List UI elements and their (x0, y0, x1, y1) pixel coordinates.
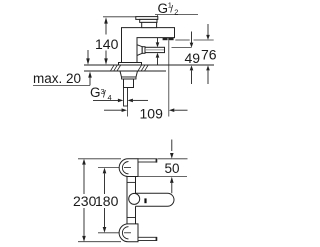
max. 20 up arrow below deck (89, 77, 91, 85)
svg-text:230: 230 (73, 193, 97, 209)
dimension 230 (82, 159, 86, 165)
extension line 180 bottom (connector centerline) (98, 232, 129, 234)
arrow 140 bottom (104, 58, 108, 64)
svg-text:max. 20: max. 20 (33, 71, 81, 86)
hose union tube (145, 47, 165, 52)
bottom hose pipe (138, 237, 157, 240)
deck hatching right (138, 65, 148, 71)
label G3/4 (90, 85, 112, 102)
bottom connector centerline tick (124, 232, 131, 234)
washer (122, 77, 137, 79)
shank tube (124, 88, 128, 107)
dimension 140 vertical (105, 24, 107, 60)
extension line 230 top (78, 158, 121, 160)
deck hatching left (111, 65, 121, 71)
leader underline for G1/2 (155, 14, 198, 16)
max. 20 underline (33, 84, 90, 86)
body bar right edge lower (135, 206, 137, 224)
dimension 50 (171, 140, 173, 152)
max. 20 down arrow above deck (87, 50, 89, 59)
G3/4 arrow right (128, 99, 133, 103)
extension line 140 top (103, 16, 136, 18)
dimension 180 (103, 168, 107, 174)
hose union nut (142, 47, 145, 54)
hose tube center line (146, 49, 164, 51)
dimension 49 (191, 32, 193, 44)
shank right-edge extension to 109 dim (127, 106, 129, 117)
lever handle (136, 17, 158, 28)
spout (plan, stadium) (136, 193, 175, 206)
top hose pipe (138, 159, 157, 162)
G1/2 down arrow to hose union (157, 38, 159, 43)
deck bottom line (84, 70, 166, 72)
svg-text:180: 180 (95, 193, 119, 209)
dimension 109 (104, 109, 122, 111)
svg-text:/: / (170, 5, 173, 16)
lever circle (plan) (129, 193, 140, 204)
extension line 230 bottom (78, 241, 121, 243)
hose union flare (137, 45, 142, 56)
label G1/2 (158, 1, 179, 17)
G3/4 arrow left (93, 99, 119, 101)
spout outlet feet (163, 38, 168, 41)
arrow 140 top (104, 17, 108, 23)
body bar joint line lower (127, 217, 136, 219)
50 reference line top (pipe top extended) (158, 158, 188, 160)
extension line 49 (union top) (172, 46, 192, 48)
bottom connector inner arc (122, 227, 128, 239)
svg-text:49: 49 (185, 50, 201, 66)
svg-text:G: G (90, 85, 101, 100)
top connector centerline tick (124, 167, 131, 169)
spout tick (144, 198, 146, 203)
bottom pipe end cap (155, 237, 157, 241)
body bar left edge (126, 177, 128, 224)
locking nut below deck (120, 71, 138, 77)
body bar joint line upper (127, 181, 136, 183)
svg-text:140: 140 (95, 36, 119, 52)
deck top line (84, 64, 214, 66)
faucet body (gamma shape: tower + spout arm) (122, 28, 175, 63)
50 reference line bottom (connector bottom extended) (138, 176, 187, 178)
shank upper (124, 79, 134, 88)
base foot flange (119, 63, 142, 66)
svg-text:50: 50 (165, 161, 180, 176)
top connector inner arc (122, 162, 128, 174)
dimension 76 (207, 24, 209, 35)
svg-text:109: 109 (140, 106, 164, 122)
extension line 76 (outlet bottom) (175, 39, 189, 41)
leader tick G1/2 (157, 15, 159, 17)
bottom connector (stadium) (119, 224, 138, 242)
top connector (stadium) (119, 159, 138, 177)
svg-text:76: 76 (201, 47, 217, 63)
svg-text:/: / (103, 90, 106, 101)
extension line 180 top (connector centerline) (98, 167, 129, 169)
body bar right edge (135, 177, 137, 194)
top pipe end cap (155, 159, 157, 163)
G1/2 up arrow below union (156, 53, 160, 58)
extension vertical from outlet down to 109 dim (168, 40, 170, 116)
svg-text:G: G (158, 1, 169, 16)
